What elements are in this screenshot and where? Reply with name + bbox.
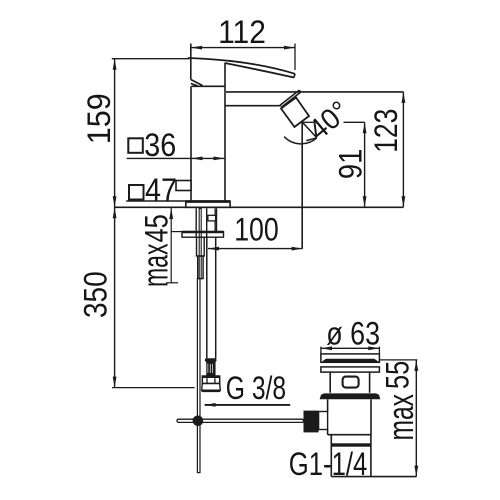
svg-text:123: 123 (368, 109, 404, 153)
svg-text:max: max (135, 244, 176, 288)
svg-text:max: max (380, 394, 421, 441)
svg-text:91: 91 (333, 149, 369, 179)
svg-text:ø 63: ø 63 (326, 315, 380, 351)
svg-text:159: 159 (81, 93, 117, 144)
svg-text:G1-1/4: G1-1/4 (289, 446, 368, 482)
svg-text:350: 350 (78, 271, 114, 318)
svg-text:45: 45 (139, 214, 175, 242)
svg-text:G 3/8: G 3/8 (226, 370, 286, 406)
svg-text:47: 47 (145, 172, 177, 208)
svg-text:100: 100 (234, 212, 279, 248)
svg-text:36: 36 (144, 127, 176, 163)
svg-text:55: 55 (379, 361, 415, 389)
svg-text:112: 112 (218, 14, 266, 50)
